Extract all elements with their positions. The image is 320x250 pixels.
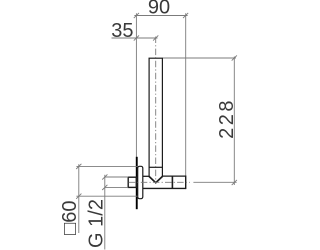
dimension G 1/2 text bbox=[85, 199, 107, 248]
supply nut G 1/2 bbox=[128, 177, 136, 187]
dimension 228 tick bottom bbox=[232, 180, 237, 185]
wall line bbox=[136, 157, 138, 209]
riser pipe joint line bbox=[149, 166, 162, 168]
extension line left (wall plane) bbox=[135, 13, 137, 157]
dimension G 1/2 bottom extension line bbox=[105, 186, 128, 188]
dimension 35 line bbox=[112, 37, 158, 39]
svg-text:35: 35 bbox=[111, 20, 133, 42]
dimension 228 top extension line bbox=[163, 57, 236, 59]
vertical center line of riser bbox=[155, 37, 157, 183]
dimension G 1/2 tick top bbox=[102, 174, 107, 179]
dimension 90 text bbox=[148, 0, 170, 19]
svg-text:90: 90 bbox=[148, 0, 170, 19]
horizontal outlet body bbox=[143, 176, 186, 190]
dimension square60 bottom extension line bbox=[76, 195, 137, 197]
dimension G 1/2 top extension line bbox=[105, 176, 128, 178]
dimension 228 tick top bbox=[232, 55, 237, 60]
dimension square60 tick bottom bbox=[76, 194, 81, 199]
dimension 228 bottom extension line bbox=[193, 181, 236, 183]
dimension square60 top extension line bbox=[76, 165, 137, 167]
wall flange rosette bbox=[138, 166, 143, 198]
horizontal center line bbox=[129, 181, 190, 183]
dimension 90 tick right bbox=[183, 13, 188, 18]
dimension G 1/2 tick bottom bbox=[102, 185, 107, 190]
svg-text:□60: □60 bbox=[59, 201, 81, 235]
funnel V outlet bbox=[149, 176, 163, 183]
dimension 35 tick right bbox=[153, 35, 158, 40]
svg-text:G 1/2: G 1/2 bbox=[85, 199, 107, 248]
dimension 228 line bbox=[233, 57, 235, 186]
dimension 228 text bbox=[216, 98, 238, 139]
dimension square60 text bbox=[59, 201, 81, 235]
dimension 35 tick left bbox=[134, 35, 139, 40]
outlet end cap divider bbox=[171, 176, 173, 188]
dimension square60 tick top bbox=[76, 164, 81, 169]
dimension 90 tick left bbox=[134, 13, 139, 18]
svg-text:228: 228 bbox=[216, 98, 238, 139]
extension line right (spout end) bbox=[185, 13, 187, 175]
dimension 90 line bbox=[134, 15, 187, 17]
dimension square60 line bbox=[78, 164, 80, 233]
riser pipe bbox=[149, 58, 164, 176]
dimension 35 text bbox=[111, 20, 133, 42]
dimension G 1/2 line bbox=[104, 175, 106, 250]
